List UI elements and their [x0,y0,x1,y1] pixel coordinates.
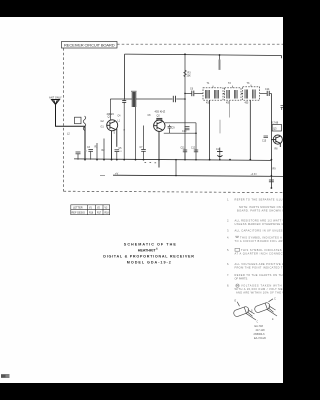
note 5 box symbol [235,248,240,251]
left dashed edge [63,48,65,192]
svg-text:R17: R17 [97,213,102,215]
coil L1 [132,92,136,107]
svg-text:AND ARE WITHIN 10% OF THE V: AND ARE WITHIN 10% OF THE V [236,291,283,295]
wire: rail left end drop [124,54,126,99]
transistor Q1 [107,120,118,160]
svg-text:AT A QUARTER INCH CONNECT: AT A QUARTER INCH CONNECT [235,252,284,256]
svg-text:VOLTAGES TAKEN WITH A: VOLTAGES TAKEN WITH A [241,284,283,288]
resistor R3 zigzag [184,70,187,77]
svg-text:ALL VOLTAGES ARE POSITIVE W: ALL VOLTAGES ARE POSITIVE W [235,262,284,266]
Q2 emitter lead down through rails [158,131,160,167]
transistor Q3 [271,135,282,147]
capacitor C2 at rail left [76,152,81,160]
svg-text:8.: 8. [227,284,229,288]
svg-text:SCHEMATIC OF THE: SCHEMATIC OF THE [124,243,177,247]
IF transformer T3 [243,87,260,100]
Q3 boxed label [272,125,281,132]
wire rail drop at 219.5 with resistor R4 [219,55,221,60]
svg-text:ANT ONLY: ANT ONLY [49,96,62,100]
wire [110,98,132,100]
leader to C label [269,299,274,302]
note 4 symbol [235,236,239,237]
links between transformers [223,92,225,94]
transistor Q2 [154,118,165,167]
junction node [271,187,273,189]
IF transformer T2 [225,88,242,100]
svg-text:DIGITAL & PROPORTIONAL RECEIVE: DIGITAL & PROPORTIONAL RECEIVER [103,255,194,259]
T3 output wire and capacitor [260,91,272,96]
svg-text:HEATHKIT: HEATHKIT [138,249,157,253]
svg-text:THIS SYMBOL INDICATES A C: THIS SYMBOL INDICATES A C [240,235,283,239]
antenna [52,100,86,160]
electrolytic C13 [217,148,223,160]
note 8 circle symbol [236,284,239,287]
svg-text:TO A CIRCUIT BOARD FOIL ARE: TO A CIRCUIT BOARD FOIL ARE [235,239,284,243]
cap over Q2 top [156,117,162,119]
svg-text:ALL CAPACITORS IN UF UNLESS: ALL CAPACITORS IN UF UNLESS [235,229,284,233]
svg-text:EA-720-20: EA-720-20 [254,337,267,340]
svg-text:REFER TO THE CHARTS ON THE: REFER TO THE CHARTS ON THE [235,273,284,277]
wire T2 stub [229,100,231,117]
svg-text:455 KHZ: 455 KHZ [155,110,166,114]
capacitor C10 [185,127,190,130]
svg-text:THIS SYMBOL INDICATES C: THIS SYMBOL INDICATES C [241,248,283,252]
svg-text:MODEL GDA-19-2: MODEL GDA-19-2 [127,260,171,264]
svg-text:C14: C14 [265,88,270,91]
svg-text:+V: +V [115,172,119,176]
svg-text:E: E [235,298,237,302]
svg-text:ALL RESISTORS ARE 1/2 WATT U: ALL RESISTORS ARE 1/2 WATT U [235,219,284,223]
svg-text:WITH A 20,000 OHM / VOLT MET: WITH A 20,000 OHM / VOLT MET [235,287,284,291]
svg-text:5.: 5. [227,248,229,252]
T1 tick and value label [212,86,214,88]
junction dots ground rail [84,159,272,161]
right edge cut component [281,106,284,111]
svg-text:REF DESIG: REF DESIG [72,212,86,215]
junction node [184,98,186,100]
capacitor C12 [194,150,198,152]
capacitor on 271 below lower rail [269,180,274,182]
tuning arrow at C1 [124,130,125,132]
bottom-left smudge [1,374,10,378]
svg-text:LETTER: LETTER [73,207,83,210]
bottom dashed edge [64,191,284,192]
svg-text:RECEIVER CIRCUIT BOARD: RECEIVER CIRCUIT BOARD [64,43,115,48]
capacitor C3 [88,150,93,160]
svg-text:REFER TO THE SEPARATE ILLUS: REFER TO THE SEPARATE ILLUS [235,197,284,201]
svg-text:C10: C10 [182,130,187,133]
wire vertical 271 [270,93,272,188]
wire coil bottom down [135,107,137,160]
junction node [195,132,197,134]
coil L2 on antenna lead [75,116,86,130]
scan dots under ground rail [145,162,157,163]
title block [103,243,194,265]
capacitor C6 before T1 [185,91,203,97]
wire stub faint [219,120,221,134]
svg-text:C: C [274,296,276,300]
series capacitor [172,96,174,102]
tank circuit L1/C1 [110,91,185,160]
T3 tick and value label [250,85,252,87]
wire tank left down to Q1 [109,99,111,120]
junction node [184,93,186,95]
IF transformer T1 [203,88,223,100]
svg-text:BOARD. PARTS ARE SHOWN IN: BOARD. PARTS ARE SHOWN IN [237,208,283,212]
label box [62,42,118,49]
wire vertical at 196 [195,123,197,160]
svg-text:7.: 7. [227,273,229,277]
svg-text:417-89: 417-89 [271,123,279,125]
capacitor between rows [168,125,172,133]
svg-text:6.: 6. [227,262,229,266]
svg-text:2.: 2. [227,219,229,223]
svg-text:3.: 3. [227,229,229,233]
svg-text:EA-748: EA-748 [255,325,264,328]
top supply rail [125,54,282,99]
svg-text:2N5064-6: 2N5064-6 [254,333,266,336]
wire T3 bottom down [249,100,251,160]
resistor R1 [96,143,98,160]
wire T1 bottom down [209,100,211,160]
junction node on rail [184,53,186,55]
svg-text:417-118: 417-118 [256,329,266,332]
svg-text:10K: 10K [187,75,192,78]
svg-text:FROM THE POINT INDICATED T: FROM THE POINT INDICATED T [235,266,283,270]
capacitor C5 [115,150,120,160]
transistor pinout right [254,299,277,316]
svg-text:R16: R16 [89,213,94,215]
svg-text:R18: R18 [105,213,110,215]
svg-text:C15: C15 [262,141,267,143]
svg-text:4.: 4. [227,235,229,239]
capacitor left of Q3 [264,136,269,138]
svg-text:+9.6V: +9.6V [251,173,258,176]
T2 tick and value label [232,86,234,88]
ground rail [74,159,271,161]
wire C7 top lead up [143,126,145,147]
antenna lead wire [56,105,86,160]
leader to E label [237,302,239,306]
svg-text:C12: C12 [191,148,196,150]
svg-text:1.: 1. [227,197,229,201]
receiver circuit board dashed outline [62,42,284,193]
svg-text:OF PARTS.: OF PARTS. [235,277,249,281]
capacitor C1 [123,99,125,101]
small dash left of lower rail [100,174,105,176]
resistor R2 [103,139,105,160]
lower supply rail [113,175,283,176]
notes list [227,197,285,294]
wire tank to right [136,98,173,100]
svg-text:C13: C13 [216,149,221,151]
voltage table [71,205,110,215]
svg-text:NOTE: PARTS MOUNTED ON CI: NOTE: PARTS MOUNTED ON CI [239,205,283,209]
wire Q2 base row [164,132,196,134]
stub ground rail to lower rail at 176 [175,160,177,176]
top dashed edge [117,43,283,45]
svg-text:Q3: Q3 [273,127,277,131]
part number text block [254,325,267,340]
Q1 leads to ground rail [111,131,113,160]
capacitor C7 [141,146,146,160]
svg-text:UNLESS MARKED OTHERWISE G: UNLESS MARKED OTHERWISE G [235,222,284,226]
resistor R3 vertical at 185 [184,54,186,159]
transistor pinout left [233,302,256,320]
capacitor C11 [183,150,187,160]
svg-text:®: ® [156,248,158,251]
wire Q2 collector right [165,122,196,124]
junction node [175,175,177,177]
